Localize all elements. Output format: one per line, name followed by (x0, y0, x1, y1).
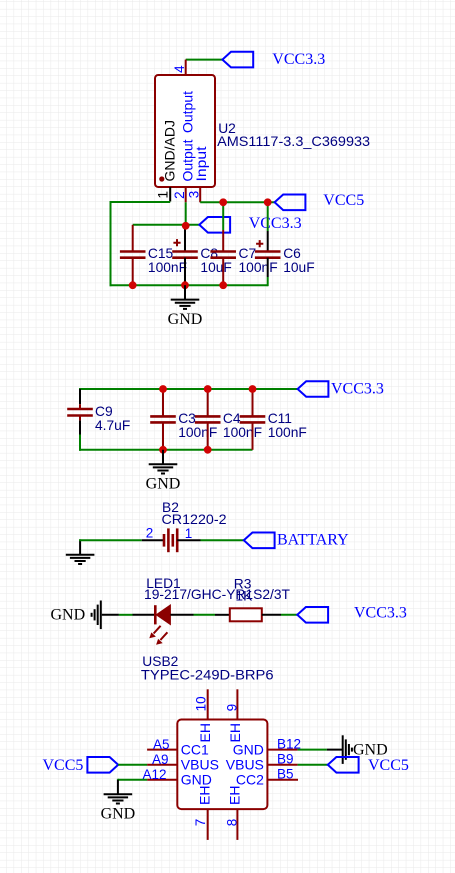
pin B9 VBUS (267, 764, 297, 766)
wire pin3 to VCC5 flag (200, 201, 274, 203)
wire gnd to LED (119, 614, 133, 616)
wire B9 to VCC5 flag (298, 764, 328, 766)
pin A9 VBUS (147, 764, 177, 766)
net flag VCC3.3 (LED) (297, 607, 328, 623)
battery B2 (142, 528, 201, 552)
svg-text:A5: A5 (153, 737, 170, 752)
svg-text:VCC5: VCC5 (323, 192, 364, 209)
svg-text:19-217/GHC-YR1S2/3T: 19-217/GHC-YR1S2/3T (144, 587, 291, 602)
wire VCC3.3 rail (133, 224, 200, 226)
pin 8 (236, 809, 238, 840)
junction top/C3 (159, 385, 167, 393)
svg-text:C3: C3 (178, 411, 196, 426)
svg-text:A9: A9 (152, 752, 169, 767)
wire C6 to GND rail (267, 277, 269, 286)
svg-text:GND: GND (353, 742, 388, 759)
pin 4 (185, 60, 187, 75)
net flag VCC3.3 (U2 output) (222, 52, 253, 68)
junction rail/C8/GND (181, 281, 189, 289)
svg-text:GND: GND (146, 476, 181, 493)
ground GND (mid bank) (146, 450, 181, 493)
svg-text:7: 7 (193, 819, 208, 827)
wire corner (117, 779, 119, 780)
resistor R3 (215, 608, 281, 621)
svg-text:100nF: 100nF (178, 425, 217, 440)
svg-text:3: 3 (187, 191, 202, 199)
svg-text:1: 1 (185, 526, 193, 541)
wire battery to BATTARY flag (201, 539, 244, 541)
svg-text:EH: EH (227, 723, 243, 742)
pin 10 (207, 689, 209, 719)
pin 7 (207, 809, 209, 840)
pin 9 (236, 689, 238, 719)
LED LED1 (133, 605, 194, 645)
capacitor C11 (240, 389, 307, 450)
svg-text:1K: 1K (235, 589, 253, 604)
connector USB2 body (177, 720, 267, 810)
svg-text:GND: GND (181, 772, 212, 788)
svg-text:1: 1 (156, 191, 171, 199)
wire pin4 to VCC3.3 flag (186, 59, 223, 61)
wire VCC5 to C6 (267, 202, 269, 231)
capacitor C3 (150, 389, 217, 450)
wire pin2 down to VCC3.3 rail (185, 202, 187, 226)
capacitor C15 (120, 225, 187, 285)
svg-text:GND/ADJ: GND/ADJ (162, 120, 178, 181)
wire R3 to VCC3.3 flag (281, 614, 297, 616)
capacitor C8 (polarized) (172, 226, 232, 299)
svg-text:BATTARY: BATTARY (277, 532, 349, 549)
svg-text:C9: C9 (95, 404, 113, 419)
svg-text:GND: GND (101, 806, 136, 823)
junction VCC5/C7 (219, 198, 227, 206)
net flag VCC5 (USB right) (328, 757, 359, 773)
wire gnd corner (79, 539, 81, 540)
capacitor C7 (210, 230, 277, 285)
pin 1 indicator dot (159, 176, 164, 181)
svg-text:VCC3.3: VCC3.3 (272, 51, 325, 68)
ground GND (USB left) (101, 780, 136, 823)
wire B12 to gnd (298, 749, 327, 751)
wire VCC5 to A9 (118, 764, 147, 766)
svg-text:EH: EH (226, 786, 242, 805)
junction rail/C15 (129, 281, 137, 289)
wire A12 to gnd corner (118, 779, 147, 781)
svg-text:10: 10 (193, 696, 208, 711)
svg-text:100nF: 100nF (148, 260, 187, 275)
svg-text:VCC3.3: VCC3.3 (354, 604, 407, 621)
svg-text:AMS1117-3.3_C369933: AMS1117-3.3_C369933 (217, 134, 370, 149)
net flag VCC3.3 (mid) (298, 381, 329, 397)
svg-text:100nF: 100nF (268, 425, 307, 440)
pin B5 CC2 (267, 779, 298, 781)
ground (battery) (66, 540, 95, 564)
wire GND bottom rail (110, 284, 268, 286)
svg-text:2: 2 (146, 526, 154, 541)
capacitor C9 (67, 404, 130, 433)
svg-text:10uF: 10uF (200, 260, 231, 275)
pin 3 Input (199, 187, 201, 202)
svg-text:4.7uF: 4.7uF (95, 418, 130, 433)
svg-text:VCC5: VCC5 (43, 757, 84, 774)
svg-text:GND: GND (168, 311, 203, 328)
junction top/C11 (249, 385, 257, 393)
svg-text:C11: C11 (268, 411, 292, 426)
wire GND bottom rail mid (79, 449, 253, 451)
junction pin2/C8/flag (182, 222, 190, 230)
svg-text:CC1: CC1 (181, 741, 209, 757)
svg-text:C7: C7 (239, 246, 257, 261)
wire VCC5 to C7 (222, 202, 224, 230)
svg-text:B5: B5 (277, 767, 294, 782)
junction rail/C7 (219, 281, 227, 289)
svg-text:GND: GND (233, 741, 264, 757)
op-amp U2 body AMS1117-3.3 (155, 75, 215, 187)
net flag BATTARY (244, 533, 275, 549)
svg-text:Output: Output (180, 91, 196, 133)
svg-text:C6: C6 (283, 246, 301, 261)
svg-text:2: 2 (172, 191, 187, 199)
wire gnd stem (102, 614, 119, 616)
svg-text:CR1220-2: CR1220-2 (162, 512, 227, 527)
net flag VCC5 (USB left) (87, 757, 118, 773)
pin 2 Output (185, 187, 187, 202)
wire LED to R3 (194, 614, 216, 616)
wire left rail down (110, 201, 112, 286)
svg-text:C4: C4 (223, 411, 241, 426)
svg-text:4: 4 (172, 65, 187, 73)
wire pin1 to left rail (111, 201, 171, 203)
svg-text:9: 9 (224, 704, 239, 712)
svg-text:B12: B12 (277, 736, 301, 751)
ground (LED side) (92, 601, 101, 630)
svg-text:100nF: 100nF (239, 260, 278, 275)
svg-text:B9: B9 (277, 752, 294, 767)
pin A12 GND (147, 779, 177, 781)
wire gnd stem B12 (327, 749, 343, 751)
svg-text:VCC3.3: VCC3.3 (249, 215, 302, 232)
svg-text:VCC3.3: VCC3.3 (331, 380, 384, 397)
pin B12 GND (267, 749, 297, 751)
svg-text:EH: EH (197, 786, 213, 805)
junction bottom/C4 (204, 446, 212, 454)
junction top/C4 (204, 385, 212, 393)
junction bottom/C3/GND (159, 446, 167, 454)
pin A5 CC1 (147, 749, 177, 751)
svg-text:VBUS: VBUS (181, 757, 219, 773)
capacitor C6 (polarized) (255, 231, 315, 277)
svg-text:TYPEC-249D-BRP6: TYPEC-249D-BRP6 (141, 667, 274, 682)
pin 1 GND/ADJ (169, 187, 171, 202)
svg-text:GND: GND (51, 607, 86, 624)
capacitor C4 (195, 389, 262, 450)
svg-text:VBUS: VBUS (226, 757, 264, 773)
wire VCC3.3 top rail (79, 388, 298, 390)
wire gnd to battery (79, 539, 142, 541)
ground (USB right) (343, 735, 352, 764)
wire top rail corner (79, 388, 81, 390)
svg-text:C15: C15 (148, 246, 174, 261)
svg-text:CC2: CC2 (236, 772, 264, 788)
svg-text:8: 8 (224, 819, 239, 827)
wire C9 to bottom rail (79, 435, 81, 451)
svg-text:100nF: 100nF (223, 425, 262, 440)
svg-text:VCC5: VCC5 (368, 757, 409, 774)
svg-text:10uF: 10uF (283, 260, 314, 275)
svg-text:EH: EH (197, 723, 213, 742)
ground GND (regulator caps) (168, 285, 203, 328)
net flag VCC3.3 (rail) (199, 217, 230, 233)
capacitor C9 top black lead (79, 389, 81, 404)
junction VCC5/C6 (264, 198, 272, 206)
svg-text:Input: Input (193, 146, 209, 181)
net flag VCC5 (275, 195, 306, 211)
